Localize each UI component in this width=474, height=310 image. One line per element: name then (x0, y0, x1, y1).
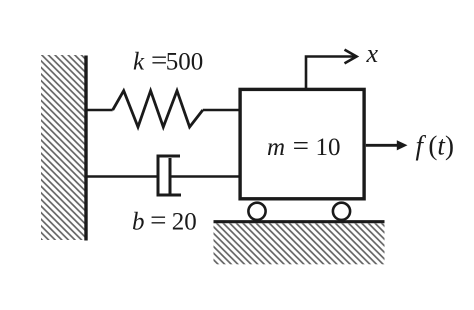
spring k (113, 91, 203, 127)
wall (fixed support, hatched) (41, 55, 85, 240)
force arrow f(t) (366, 144, 399, 147)
ground (hatched) (214, 223, 385, 264)
svg-text:b=20: b=20 (132, 205, 197, 237)
wall edge (84, 56, 87, 241)
mass m (block) (240, 89, 364, 198)
svg-text:f (t): f (t) (416, 131, 454, 161)
ground line (214, 220, 385, 223)
svg-text:k=500: k=500 (133, 45, 203, 77)
wire: spring left lead (86, 109, 113, 112)
wire: damper rod to mass (170, 175, 240, 178)
wheel right (333, 203, 350, 220)
wire: spring right lead (203, 109, 240, 112)
wheel left (248, 203, 265, 220)
damper piston (169, 158, 172, 194)
damper b cylinder (158, 156, 181, 195)
displacement arrow x (306, 57, 356, 90)
wire: damper left lead (86, 175, 159, 178)
svg-text:m=10: m=10 (267, 130, 341, 162)
svg-text:x: x (366, 39, 379, 68)
